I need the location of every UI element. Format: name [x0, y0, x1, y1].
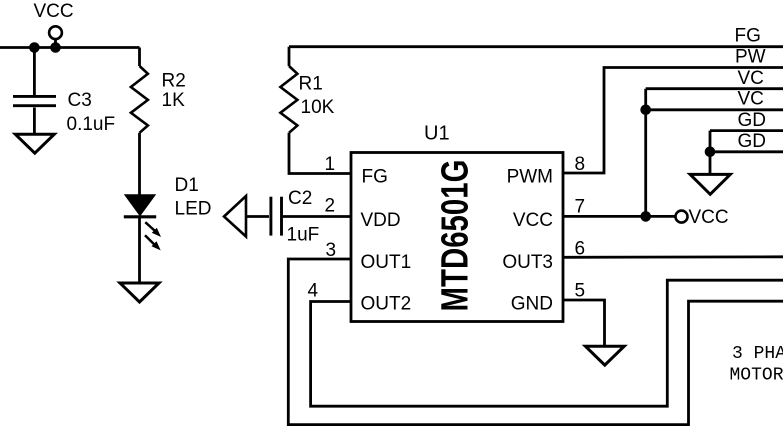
svg-text:3: 3 [326, 240, 337, 261]
wire OUT1 pin3 route [288, 259, 783, 425]
IC U1 box [351, 153, 563, 322]
svg-text:GD: GD [738, 110, 767, 131]
wire R2 drop from rail [138, 48, 141, 67]
svg-text:4: 4 [308, 281, 319, 302]
wire C3 branch vertical [33, 48, 36, 96]
ground below C3 [15, 134, 54, 153]
svg-text:6: 6 [575, 238, 586, 259]
capacitor C3 [13, 96, 56, 105]
svg-text:VCC: VCC [689, 207, 729, 228]
wire OUT2 pin4 route [311, 280, 783, 406]
resistor R1 [280, 66, 297, 133]
svg-text:2: 2 [325, 195, 336, 216]
wire pin5 GND [563, 300, 605, 346]
LED D1 [124, 194, 156, 216]
svg-text:C3: C3 [68, 90, 92, 111]
svg-text:FG: FG [735, 26, 761, 47]
svg-text:VC: VC [738, 68, 764, 89]
svg-text:R1: R1 [299, 73, 323, 94]
resistor R2 [131, 66, 148, 133]
svg-text:C2: C2 [288, 188, 312, 209]
wire pin8 PWM route [563, 68, 783, 174]
svg-text:GD: GD [738, 131, 767, 152]
svg-text:VC: VC [738, 89, 764, 110]
junction dot GD [705, 147, 716, 158]
wire VCC rail top-left [0, 46, 140, 49]
svg-text:7: 7 [575, 196, 586, 217]
svg-text:5: 5 [575, 281, 586, 302]
svg-text:OUT2: OUT2 [361, 293, 412, 314]
svg-text:MTD6501G: MTD6501G [435, 160, 477, 312]
svg-text:1: 1 [325, 154, 336, 175]
svg-text:8: 8 [575, 154, 586, 175]
LED emission arrows [145, 222, 155, 244]
svg-text:U1: U1 [424, 123, 450, 145]
wire R1 top [288, 47, 291, 66]
junction dot VC [640, 105, 651, 116]
VCC terminal circle right [676, 211, 688, 223]
svg-text:MOTOR: MOTOR [730, 366, 783, 386]
wire GD line 1 [710, 129, 783, 132]
wire GD line 2 [710, 150, 783, 153]
svg-text:PWM: PWM [507, 167, 553, 188]
ground right [690, 174, 730, 194]
svg-text:VCC: VCC [513, 210, 553, 231]
wire pin6 OUT3 [563, 255, 783, 258]
junction dot pin7 [640, 211, 651, 222]
wire VC line 2 [646, 108, 783, 111]
svg-text:LED: LED [175, 198, 212, 219]
ground below LED [120, 283, 159, 302]
wire C2 to pin 2 [283, 215, 351, 218]
wire VC line 1 [646, 87, 783, 90]
svg-text:1uF: 1uF [287, 225, 320, 246]
wire R1 to pin 1 [289, 133, 351, 174]
ground below pin5 [585, 346, 624, 365]
svg-text:1K: 1K [162, 90, 186, 111]
wire GD vertical [709, 131, 712, 174]
svg-text:OUT1: OUT1 [361, 252, 412, 273]
junction dot at VCC terminal [50, 42, 61, 53]
wire arrow to C2 [246, 215, 269, 218]
svg-text:D1: D1 [175, 175, 199, 196]
wire LED to ground [138, 217, 141, 283]
svg-text:FG: FG [362, 167, 388, 188]
off-page arrow into C2 [224, 196, 246, 237]
svg-text:0.1uF: 0.1uF [67, 114, 116, 135]
svg-text:VCC: VCC [34, 1, 74, 22]
svg-text:PW: PW [735, 47, 766, 68]
wire VC vertical branch [644, 89, 647, 217]
svg-text:10K: 10K [301, 97, 335, 118]
wire pin7 VCC [563, 215, 676, 218]
junction dot at C3 [29, 42, 40, 53]
wire FG net top line [289, 45, 783, 48]
wire C3 to ground [33, 108, 36, 134]
svg-text:VDD: VDD [361, 210, 401, 231]
capacitor C2 [271, 197, 282, 236]
wire R2 to LED [138, 133, 141, 196]
svg-text:R2: R2 [162, 70, 186, 91]
svg-text:GND: GND [511, 293, 553, 314]
VCC terminal circle [49, 26, 62, 39]
svg-text:OUT3: OUT3 [502, 252, 553, 273]
svg-text:3 PHASE: 3 PHASE [732, 344, 783, 364]
